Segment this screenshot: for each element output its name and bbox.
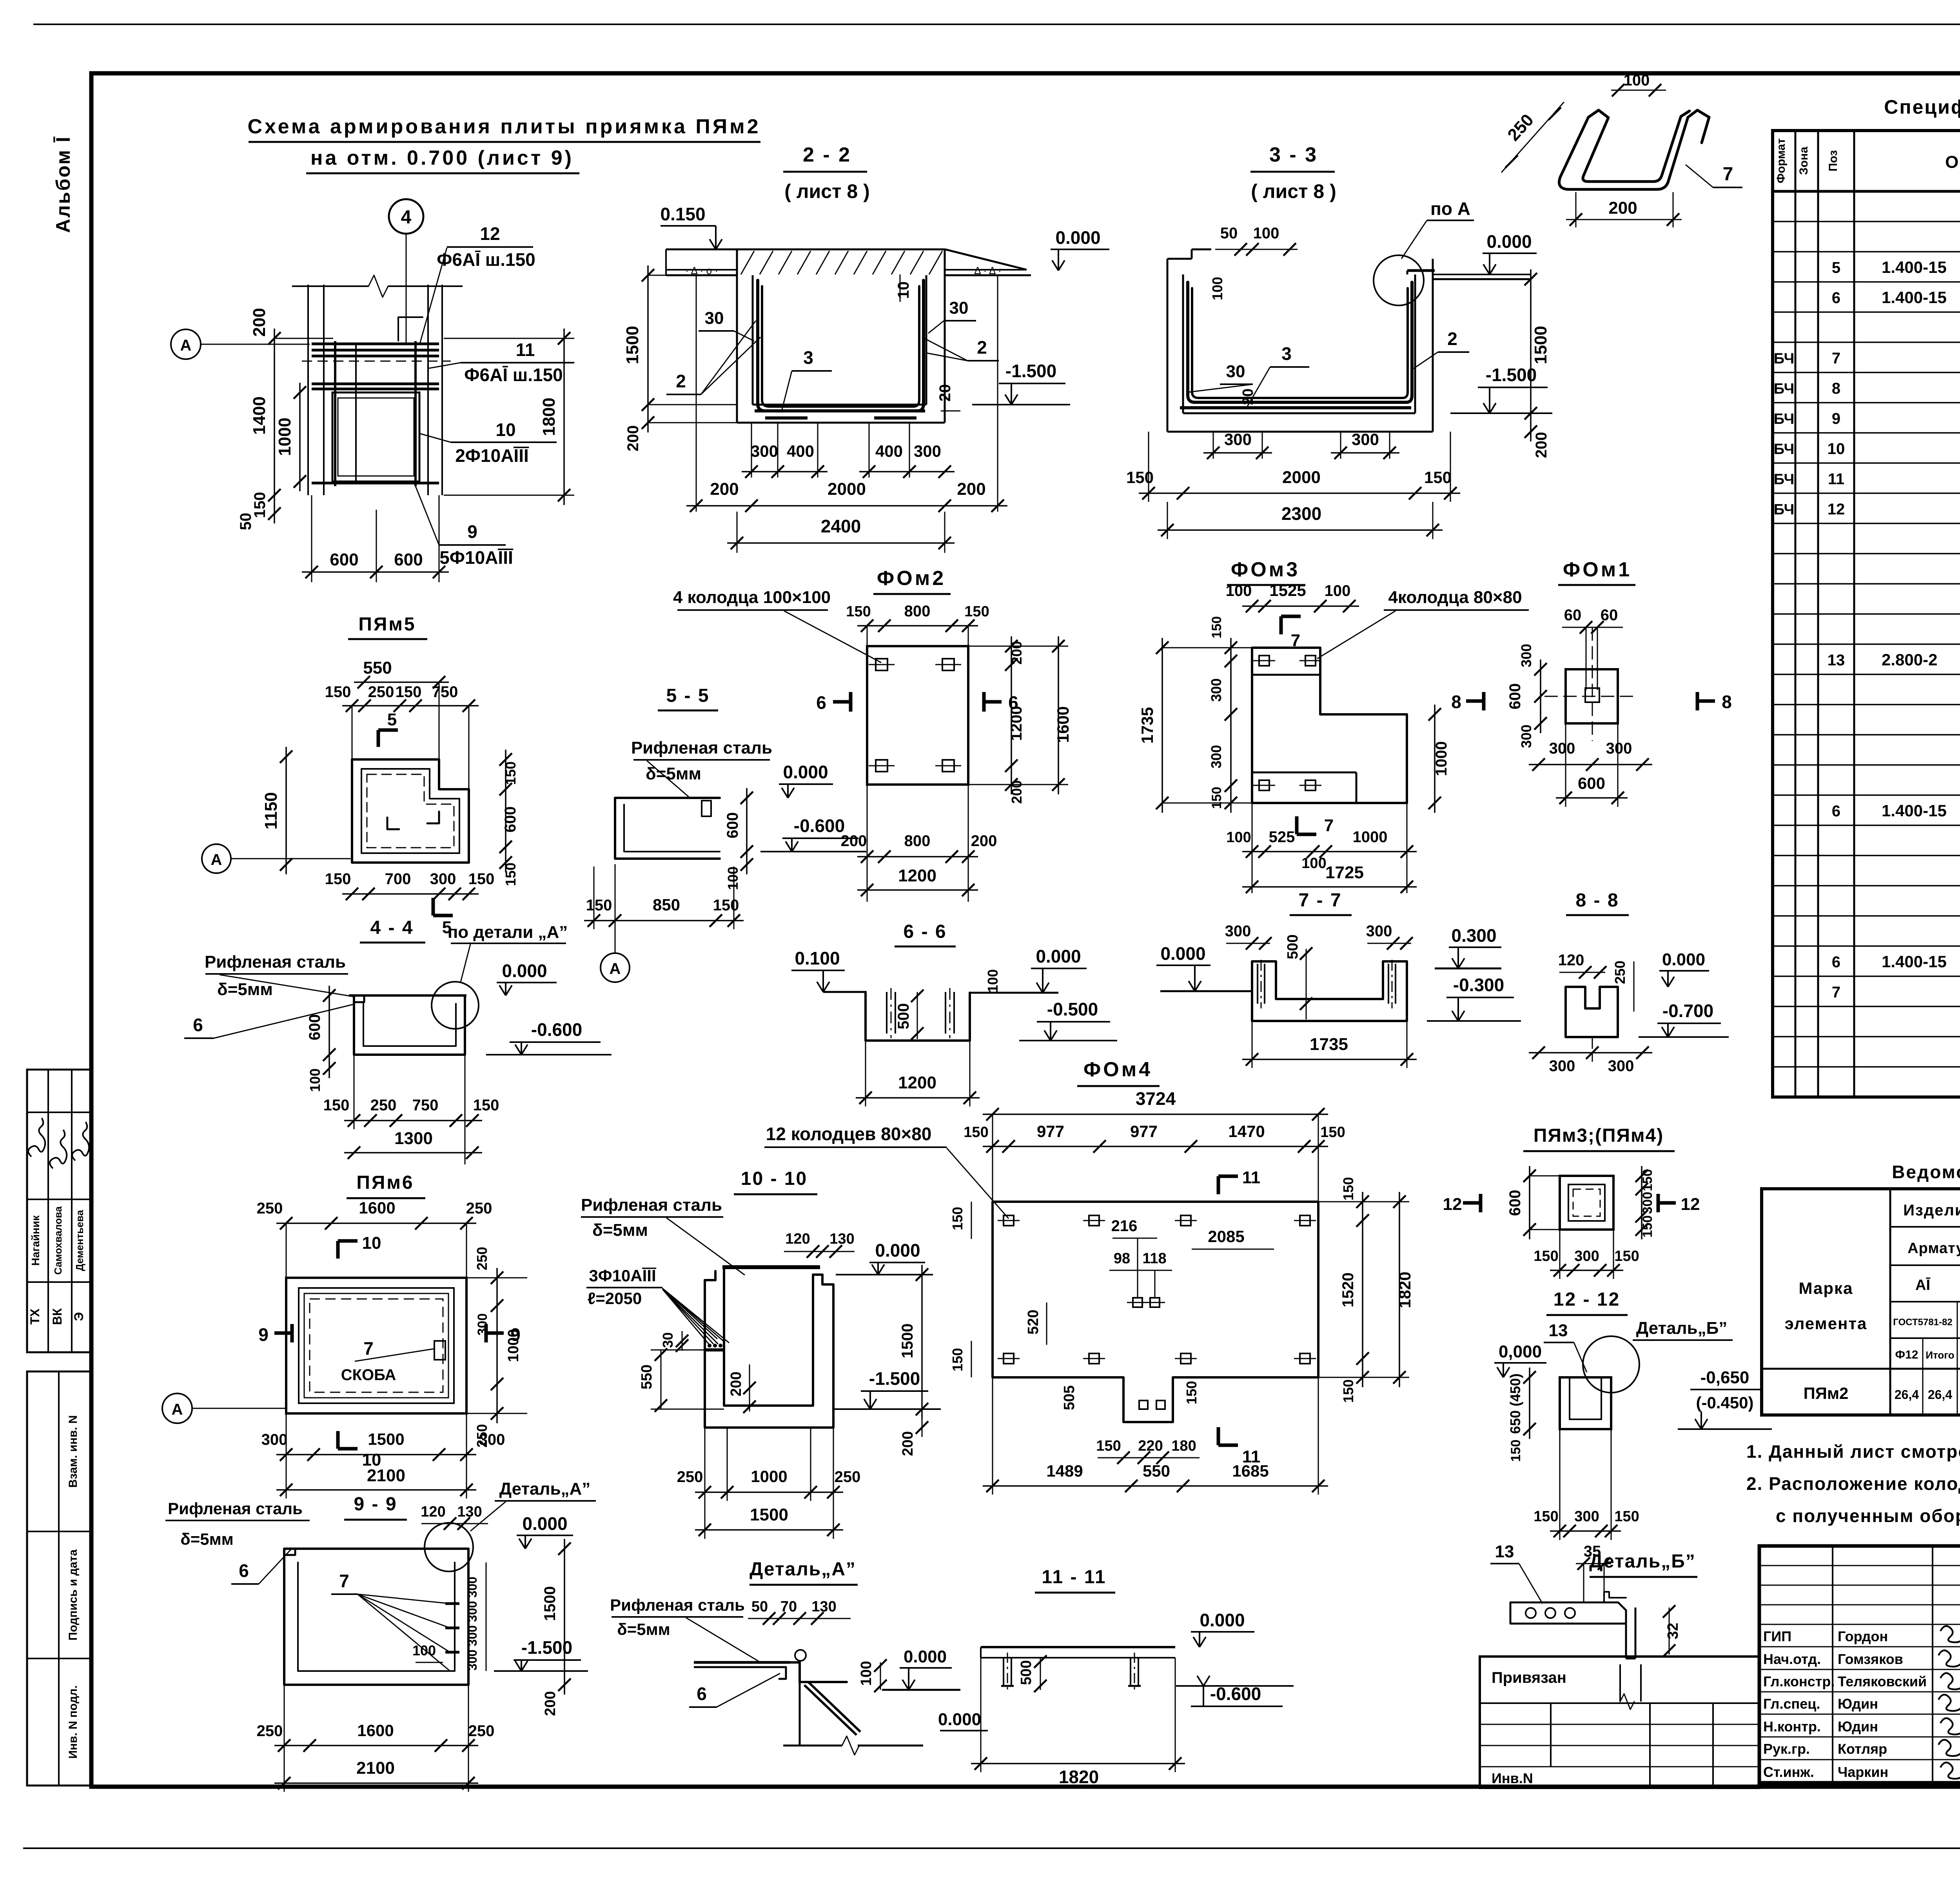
svg-text:300: 300 [751, 442, 778, 460]
ПЯм3: outline [1560, 1176, 1613, 1230]
svg-text:2: 2 [1447, 329, 1457, 349]
svg-text:2000: 2000 [1282, 468, 1321, 487]
svg-text:100: 100 [1226, 829, 1251, 846]
ФОм3 plan: bottom dim 1725 [1242, 886, 1417, 888]
svg-text:2300: 2300 [1281, 503, 1321, 524]
section 8-8: bottom dims 300/300 [1529, 1052, 1652, 1054]
svg-text:1735: 1735 [1138, 707, 1156, 743]
ФОм3 plan: outline (L-shape) [1252, 648, 1407, 803]
title block: left thin rows [1759, 1565, 1960, 1566]
svg-text:13: 13 [1549, 1321, 1568, 1340]
svg-text:150: 150 [323, 1097, 350, 1114]
svg-text:50: 50 [237, 513, 254, 530]
svg-text:300: 300 [1225, 923, 1251, 940]
svg-text:1000: 1000 [275, 418, 294, 456]
ФОм2 plan: bolt wells [876, 659, 887, 670]
svg-text:180: 180 [1171, 1438, 1196, 1454]
svg-text:-0.300: -0.300 [1453, 975, 1504, 995]
ПЯм6: section mark 10 top [336, 1241, 340, 1259]
svg-text:1470: 1470 [1228, 1122, 1265, 1141]
svg-text:150: 150 [1614, 1248, 1639, 1264]
svg-text:30: 30 [705, 309, 724, 328]
svg-text:Δ · Δ ·: Δ · Δ · [974, 265, 1001, 276]
scheme: vertical rebars [334, 341, 336, 486]
svg-text:-1.500: -1.500 [869, 1368, 920, 1389]
section 7-7: bottom dim 1735 [1242, 1059, 1417, 1060]
section 3-3: floor rebar item 3 [1180, 406, 1411, 409]
svg-text:0.000: 0.000 [1055, 227, 1100, 248]
svg-text:Инв.N: Инв.N [1492, 1770, 1533, 1786]
svg-text:9 - 9: 9 - 9 [354, 1494, 397, 1515]
svg-text:300: 300 [465, 1649, 479, 1670]
svg-text:500: 500 [1285, 934, 1301, 959]
svg-text:1000: 1000 [1353, 828, 1388, 846]
svg-text:10: 10 [895, 282, 912, 299]
svg-text:100: 100 [1209, 277, 1225, 300]
left stamp: person column dividers [47, 1070, 49, 1352]
svg-text:Арматура класса: Арматура класса [1907, 1240, 1960, 1257]
ПЯм6: right dims 250/300/1000/250 [496, 1268, 498, 1423]
scheme: axis circle 4 with leader [389, 199, 423, 234]
ФОм2 plan: top dim chain [857, 625, 978, 627]
section 4-4: bottom dim 1300 [344, 1152, 482, 1153]
svg-text:150: 150 [1534, 1508, 1558, 1525]
ПЯм5: left dim 1150 [285, 747, 287, 874]
left stamp: lower box divider column [58, 1371, 60, 1786]
svg-text:7: 7 [1832, 984, 1840, 1001]
ПЯм5: plan inner wall line [361, 769, 459, 853]
svg-text:ФОм3: ФОм3 [1231, 558, 1300, 581]
svg-text:Юдин: Юдин [1838, 1696, 1878, 1712]
svg-text:11: 11 [516, 340, 535, 360]
svg-text:Дементьева: Дементьева [74, 1210, 85, 1271]
ФОм1 plan: section marks 8 [1466, 699, 1484, 703]
svg-text:7: 7 [339, 1571, 349, 1591]
svg-text:Самохвалова: Самохвалова [52, 1206, 64, 1275]
steel table vertical lines [1889, 1189, 1891, 1415]
svg-text:δ=5мм: δ=5мм [617, 1620, 670, 1638]
ФОм4: section mark 11 bottom [1217, 1427, 1220, 1445]
svg-text:Ст.инж.: Ст.инж. [1763, 1764, 1814, 1780]
svg-text:50: 50 [1220, 225, 1238, 242]
svg-text:150: 150 [396, 683, 422, 701]
left stamp: lower box [27, 1371, 91, 1786]
scheme: top rebar mesh lines [312, 343, 439, 345]
svg-text:БЧ: БЧ [1774, 441, 1795, 458]
svg-text:2: 2 [977, 337, 987, 358]
svg-text:200: 200 [624, 425, 642, 452]
svg-text:977: 977 [1130, 1122, 1158, 1141]
svg-text:Подпись и дата: Подпись и дата [67, 1549, 80, 1640]
svg-text:(-0.450): (-0.450) [1696, 1393, 1753, 1412]
svg-text:130: 130 [829, 1231, 854, 1247]
section 4-4: channel section [349, 994, 466, 997]
svg-text:2085: 2085 [1208, 1227, 1244, 1246]
svg-text:8: 8 [1722, 692, 1732, 712]
svg-text:300: 300 [1352, 430, 1379, 449]
section 9-9: dim 1500 rotated [564, 1539, 565, 1695]
svg-text:300: 300 [475, 1313, 490, 1336]
svg-text:1600: 1600 [357, 1721, 394, 1740]
svg-text:150: 150 [1640, 1215, 1655, 1238]
svg-text:0.000: 0.000 [1486, 231, 1532, 252]
svg-text:1000: 1000 [505, 1329, 522, 1362]
svg-text:Альбом Ī: Альбом Ī [52, 136, 74, 233]
section 11-11: slab lines [981, 1646, 1175, 1648]
svg-text:10: 10 [362, 1233, 381, 1253]
svg-text:300: 300 [1606, 740, 1632, 757]
svg-text:9: 9 [258, 1324, 269, 1345]
svg-text:20: 20 [1240, 389, 1256, 405]
svg-text:505: 505 [1061, 1385, 1078, 1410]
svg-text:11: 11 [1242, 1168, 1261, 1187]
svg-text:220: 220 [1138, 1438, 1163, 1454]
svg-text:0.000: 0.000 [1160, 943, 1205, 964]
svg-text:БЧ: БЧ [1774, 381, 1795, 397]
svg-text:550: 550 [639, 1364, 655, 1389]
svg-text:200: 200 [728, 1371, 744, 1396]
svg-text:9: 9 [467, 521, 477, 542]
svg-text:1200: 1200 [1008, 706, 1025, 741]
section 2-2: bottom dim 2400 [727, 542, 955, 544]
svg-text:500: 500 [895, 1003, 912, 1030]
Деталь А: plate and angle [694, 1661, 790, 1664]
svg-text:30: 30 [660, 1332, 676, 1348]
svg-text:300: 300 [465, 1577, 479, 1597]
svg-text:Поз: Поз [1827, 150, 1840, 171]
svg-text:300: 300 [1366, 923, 1392, 940]
scheme: right dim 1800 [563, 329, 565, 505]
svg-text:-0,650: -0,650 [1700, 1368, 1749, 1387]
section 5-5: bottom dims 150/850/150 [584, 920, 744, 921]
ПЯм5: bottom dim chain 150/700/300/150 [342, 893, 479, 895]
svg-text:Деталь„Б”: Деталь„Б” [1636, 1319, 1727, 1338]
section 3-3: pit walls [1167, 259, 1169, 432]
svg-text:Деталь„А”: Деталь„А” [499, 1479, 591, 1499]
svg-text:100: 100 [412, 1642, 436, 1658]
svg-text:1000: 1000 [751, 1467, 787, 1486]
svg-text:30: 30 [1226, 362, 1245, 381]
ПЯм5: axis circle A [202, 844, 231, 873]
ФОм4: section mark 11 top [1217, 1176, 1220, 1194]
ФОм3 plan: left overall dim 1735 [1161, 638, 1163, 813]
svg-text:35: 35 [1584, 1543, 1601, 1560]
svg-text:150: 150 [1096, 1438, 1121, 1454]
svg-text:Инв. N подл.: Инв. N подл. [67, 1685, 80, 1758]
svg-text:0.000: 0.000 [783, 762, 828, 782]
section 9-9: bottom dim chain 250/1600/250 [274, 1745, 478, 1746]
svg-text:300: 300 [1574, 1248, 1599, 1264]
svg-text:6 - 6: 6 - 6 [903, 921, 947, 942]
svg-text:Рук.гр.: Рук.гр. [1763, 1741, 1810, 1757]
svg-text:А: А [180, 337, 192, 354]
svg-text:БЧ: БЧ [1774, 351, 1795, 367]
ФОм1 plan: bottom dim 600 [1556, 797, 1628, 799]
left stamp: upper box [27, 1070, 91, 1352]
svg-text:1600: 1600 [359, 1199, 395, 1217]
svg-text:Теляковский: Теляковский [1838, 1673, 1927, 1689]
svg-text:1.400-15: 1.400-15 [1882, 258, 1947, 276]
svg-text:5Ф10АĪĪĪ: 5Ф10АĪĪĪ [439, 547, 514, 568]
svg-text:10: 10 [1828, 440, 1845, 458]
ФОм4: bolt wells row 1 [1004, 1215, 1014, 1226]
svg-text:( лист 8 ): ( лист 8 ) [784, 180, 870, 202]
svg-text:150: 150 [949, 1348, 965, 1371]
svg-text:2.800-2: 2.800-2 [1882, 650, 1937, 669]
svg-text:150: 150 [1126, 468, 1154, 487]
ПЯм6: outline [286, 1278, 466, 1413]
ПЯм6: section marks 9 [274, 1331, 292, 1335]
svg-text:0.000: 0.000 [875, 1240, 920, 1261]
svg-text:300: 300 [1549, 740, 1575, 757]
svg-text:Гомзяков: Гомзяков [1838, 1651, 1903, 1667]
svg-text:300: 300 [914, 442, 941, 460]
svg-text:200: 200 [542, 1691, 559, 1716]
svg-text:1200: 1200 [898, 866, 936, 885]
svg-text:200: 200 [900, 1431, 916, 1456]
left stamp: lower box row dividers [27, 1531, 91, 1532]
section 11-11: anchors [1003, 1658, 1004, 1686]
svg-text:977: 977 [1037, 1122, 1064, 1141]
svg-text:12: 12 [1681, 1195, 1700, 1214]
svg-text:250: 250 [257, 1722, 283, 1740]
steel table outer border [1762, 1189, 1960, 1415]
svg-text:Рифленая сталь: Рифленая сталь [168, 1499, 303, 1518]
section 3-3: U-rebar item 2 [1188, 282, 1412, 402]
svg-text:300: 300 [1224, 430, 1252, 449]
svg-text:0,000: 0,000 [1499, 1342, 1542, 1361]
svg-text:300: 300 [1608, 1057, 1634, 1075]
svg-text:300: 300 [1208, 678, 1224, 702]
svg-text:2. Расположение колодцев по: 2. Расположение колодцев под болты уточн… [1746, 1473, 1960, 1494]
svg-text:118: 118 [1142, 1250, 1166, 1267]
section 2-2: left dim chain 1500/200 [647, 265, 649, 432]
svg-text:700: 700 [385, 870, 411, 888]
svg-text:400: 400 [787, 442, 814, 460]
svg-text:Формат: Формат [1775, 138, 1788, 183]
svg-text:8: 8 [1451, 692, 1461, 712]
svg-text:3: 3 [1281, 343, 1292, 364]
svg-text:600: 600 [306, 1014, 323, 1041]
section 9-9: anchor marks right wall [445, 1602, 459, 1605]
scheme: bottom rebar row [312, 482, 439, 485]
svg-text:Привязан: Привязан [1492, 1669, 1566, 1686]
svg-text:200: 200 [1533, 432, 1550, 458]
svg-text:БЧ: БЧ [1774, 501, 1795, 518]
svg-text:Гордон: Гордон [1838, 1628, 1888, 1644]
svg-text:60: 60 [1564, 607, 1582, 624]
svg-text:на отм. 0.700 (лист 9): на отм. 0.700 (лист 9) [310, 147, 574, 169]
svg-text:по детали „А”: по детали „А” [448, 923, 568, 942]
scheme: wall top edge with break symbol [292, 285, 368, 287]
svg-text:3 - 3: 3 - 3 [1269, 143, 1318, 166]
section 12-12: left dim 650 (450) rotated [1529, 1368, 1530, 1439]
svg-text:ТХ: ТХ [28, 1308, 42, 1325]
svg-text:Чаркин: Чаркин [1838, 1764, 1888, 1780]
svg-text:6: 6 [1832, 954, 1840, 971]
section 10-10: bottom dim 1500 [695, 1529, 843, 1531]
section 2-2: left slab wing [666, 269, 737, 271]
svg-text:250: 250 [257, 1200, 283, 1217]
svg-text:300: 300 [465, 1601, 479, 1622]
Привязан stamp: grid [1480, 1702, 1759, 1704]
svg-text:Э: Э [72, 1312, 86, 1321]
svg-text:550: 550 [363, 658, 392, 678]
svg-text:Ведомость расхода стали на: Ведомость расхода стали на элемент кг [1892, 1162, 1960, 1182]
scheme: bottom dims 600/600 [311, 495, 312, 582]
section 12-12: bottom dims 150/300/150 [1550, 1530, 1621, 1532]
svg-text:0.300: 0.300 [1451, 925, 1496, 946]
ФОм3 plan: section mark 7 top [1279, 616, 1283, 634]
svg-text:δ=5мм: δ=5мм [180, 1530, 234, 1548]
ФОм3 plan: bolt wells [1259, 656, 1269, 666]
svg-text:100: 100 [985, 969, 1001, 993]
ФОм3 plan: upper band lines [1252, 674, 1320, 676]
svg-text:150: 150 [1508, 1440, 1523, 1462]
svg-text:150: 150 [1424, 468, 1452, 487]
svg-text:3724: 3724 [1136, 1088, 1176, 1109]
svg-text:26,4: 26,4 [1895, 1388, 1919, 1402]
ФОм1 plan: bottom dims 300/300 [1529, 764, 1652, 765]
section 8-8: pit outline [1566, 987, 1618, 1037]
svg-text:300: 300 [1518, 644, 1534, 667]
ПЯм5: top dim chain 150/250/150/750 [342, 705, 479, 707]
svg-text:6: 6 [1832, 289, 1840, 307]
svg-text:4колодца 80×80: 4колодца 80×80 [1388, 588, 1522, 607]
svg-text:Гл.констр.: Гл.констр. [1763, 1673, 1835, 1689]
svg-text:ГОСТ5781-82: ГОСТ5781-82 [1893, 1317, 1952, 1328]
ФОм3 plan: right dim 1000 [1434, 705, 1436, 813]
svg-text:7 - 7: 7 - 7 [1298, 890, 1342, 911]
ПЯм3: right dims 150/300/150 [1641, 1166, 1642, 1239]
svg-text:250: 250 [1612, 961, 1628, 984]
svg-text:150: 150 [964, 1124, 988, 1141]
section 12-12: detail circle [1583, 1336, 1639, 1393]
scheme: slab step top-right [398, 317, 423, 341]
svg-text:600: 600 [1506, 683, 1524, 710]
svg-text:100: 100 [1301, 855, 1326, 872]
svg-text:Итого: Итого [1926, 1349, 1954, 1361]
svg-text:750: 750 [432, 683, 458, 701]
ФОм4: right dim chain 150/1520/150 [1362, 1192, 1363, 1387]
svg-text:СКОБА: СКОБА [341, 1366, 396, 1384]
svg-text:2400: 2400 [821, 516, 861, 536]
paper bottom edge line [23, 1847, 1960, 1849]
section 12-12: pit outline [1560, 1377, 1611, 1429]
svg-text:6: 6 [697, 1684, 707, 1704]
svg-text:2Ф10АĪĪĪ: 2Ф10АĪĪĪ [455, 445, 529, 466]
section 10-10: pit inner faces [724, 1267, 813, 1406]
svg-text:δ=5мм: δ=5мм [592, 1221, 648, 1240]
svg-text:ℓ=2050: ℓ=2050 [588, 1289, 642, 1308]
svg-text:300: 300 [465, 1625, 479, 1646]
svg-text:7: 7 [1723, 164, 1733, 185]
svg-text:200: 200 [971, 832, 997, 850]
section 3-3: top edge step left [1167, 258, 1192, 260]
section 4-4: bottom dim chain 150/250/750/150 [344, 1120, 482, 1121]
ФОм3 plan: top dim chain 100/1525/100 [1242, 605, 1359, 607]
svg-text:150: 150 [1340, 1177, 1356, 1201]
svg-text:1725: 1725 [1325, 863, 1364, 882]
ПЯм6: bottom dim chain 300/1500/300 [276, 1454, 476, 1455]
svg-text:150: 150 [1183, 1381, 1200, 1404]
svg-text:1525: 1525 [1269, 581, 1306, 599]
section 3-3: right dim chain 1500/200 [1530, 269, 1532, 441]
item 7: bent plate shape [1583, 110, 1690, 182]
svg-text:150: 150 [713, 897, 739, 914]
Привязан stamp: outer box [1480, 1657, 1759, 1788]
section 2-2: pit walls [736, 249, 738, 423]
ФОм3 plan: bottom dim chain 100/525/100/1000 [1242, 851, 1417, 852]
section 2-2: right slab wing [945, 269, 1027, 271]
svg-text:0.000: 0.000 [522, 1513, 567, 1534]
title block: left columns [1832, 1546, 1833, 1783]
svg-text:1600: 1600 [1054, 706, 1072, 743]
svg-text:100: 100 [725, 866, 741, 890]
svg-text:26,4: 26,4 [1928, 1388, 1952, 1402]
svg-text:Юдин: Юдин [1838, 1718, 1878, 1735]
svg-text:120: 120 [785, 1231, 810, 1247]
title block: outer border [1759, 1546, 1960, 1783]
item 7: dim 250 diagonal [1501, 102, 1564, 173]
svg-text:12 колодцев 80×80: 12 колодцев 80×80 [766, 1124, 932, 1144]
section 2-2: floor rebar item 3 [755, 409, 925, 412]
svg-text:6: 6 [1832, 803, 1840, 820]
svg-text:600: 600 [330, 550, 358, 569]
spec table grid [1773, 131, 1960, 1097]
svg-text:АĪ: АĪ [1915, 1277, 1930, 1293]
svg-text:1500: 1500 [750, 1505, 788, 1524]
ПЯм3: section marks 12 [1463, 1201, 1481, 1205]
svg-text:Ф6АĪ ш.150: Ф6АĪ ш.150 [437, 249, 535, 270]
svg-text:-0.600: -0.600 [794, 816, 845, 836]
svg-text:1.400-15: 1.400-15 [1882, 801, 1947, 820]
ФОм4: bolt wells row 2 middle [1133, 1298, 1142, 1307]
svg-text:11 - 11: 11 - 11 [1042, 1567, 1106, 1588]
section 10-10: bottom dim chain 250/1000/250 [695, 1491, 843, 1493]
svg-text:1400: 1400 [250, 396, 269, 435]
section 7-7: anchors [1257, 964, 1258, 1004]
ПЯм6: bracket item right [434, 1341, 445, 1360]
section 2-2: pit bottom [737, 422, 945, 424]
svg-text:11: 11 [1828, 470, 1844, 488]
ФОм2 plan: right dim chain 200/1200/200 [1011, 636, 1012, 794]
scheme: pit opening square [332, 392, 419, 481]
svg-text:1735: 1735 [1310, 1035, 1348, 1054]
ФОм4: bolt wells row 3 [1004, 1353, 1014, 1364]
section 3-3: bottom dims 300 300 [1213, 432, 1214, 459]
svg-text:100: 100 [1624, 72, 1650, 89]
svg-text:0.100: 0.100 [795, 948, 840, 968]
svg-text:120: 120 [1558, 952, 1584, 969]
svg-text:300: 300 [1549, 1057, 1575, 1075]
svg-text:150: 150 [325, 870, 351, 888]
svg-text:250: 250 [468, 1722, 495, 1740]
Деталь А: break squiggle bottom [783, 1745, 842, 1747]
svg-text:Ф6АĪ ш.150: Ф6АĪ ш.150 [464, 365, 563, 385]
svg-text:А: А [172, 1401, 183, 1418]
svg-text:4: 4 [401, 207, 412, 228]
svg-text:150: 150 [949, 1207, 965, 1230]
ПЯм5: plan inner dashed line [367, 774, 454, 848]
section 7-7: ground lines [1160, 990, 1252, 992]
svg-text:2100: 2100 [367, 1466, 405, 1485]
svg-text:250: 250 [466, 1200, 492, 1217]
section 10-10: pit outer outline [705, 1271, 833, 1428]
svg-text:Зона: Зона [1797, 147, 1810, 175]
title block: left name rows [1759, 1646, 1960, 1647]
section 5-5: right dims 600/100 [746, 788, 748, 874]
